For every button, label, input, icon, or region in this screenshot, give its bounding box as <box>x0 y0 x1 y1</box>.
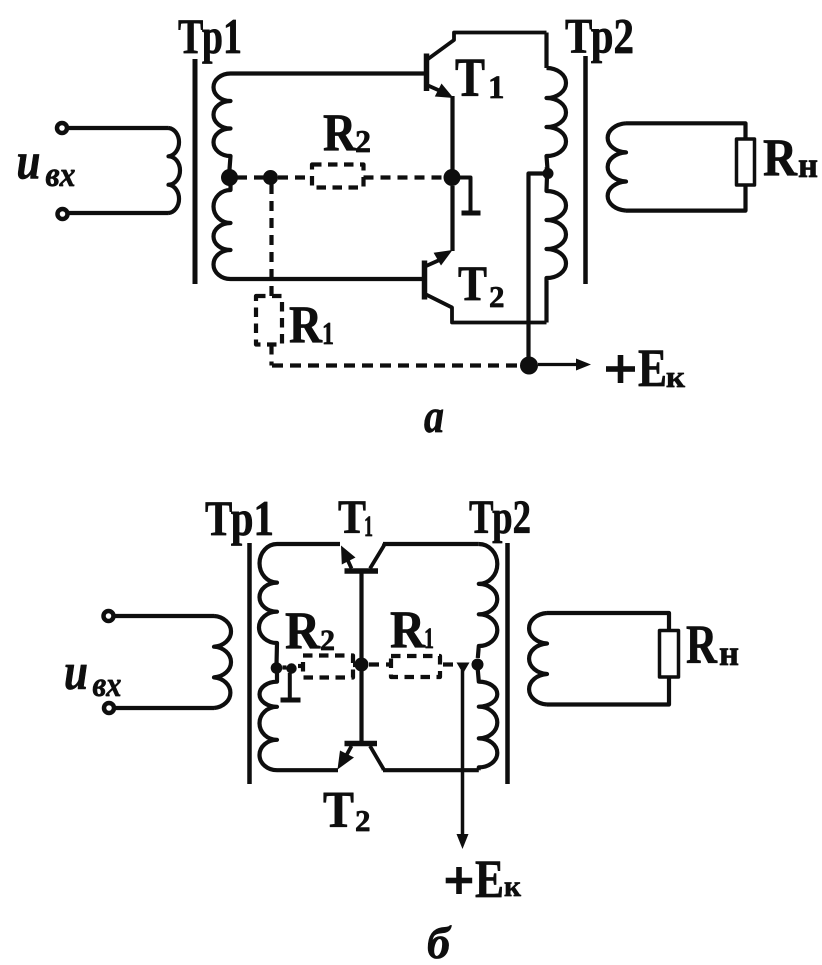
transformer Tp2 primary upper winding (a) <box>547 68 567 169</box>
wire dashed node A down to R1 (a) <box>269 184 273 296</box>
transistor T1 emitter arrow (a) <box>435 84 454 99</box>
label R2 (b) <box>285 602 335 660</box>
wire input bottom (a) <box>68 211 169 215</box>
transformer Tp1 core (b) <box>247 543 252 784</box>
label +Ek (b) <box>446 849 522 909</box>
label u_vx (a) <box>17 134 76 195</box>
label T2 (b) <box>323 782 371 839</box>
wire dashed R1 down (a) <box>269 345 273 366</box>
transistor T2 base bar (a) <box>422 261 428 300</box>
svg-text:2: 2 <box>320 624 335 657</box>
node center tap Tp2 (a) <box>547 167 548 171</box>
svg-text:R: R <box>686 614 718 675</box>
svg-text:Е: Е <box>638 338 667 398</box>
svg-text:1: 1 <box>424 622 434 655</box>
svg-text:вх: вх <box>93 665 122 704</box>
transformer Tp2 core (a) <box>583 56 588 284</box>
svg-text:1: 1 <box>364 510 373 543</box>
wire dashed R2 to emitter node (a) <box>364 175 445 179</box>
input terminal bottom (b) <box>104 703 114 713</box>
wire Tp2 secondary bottom to RH (a) <box>626 185 746 211</box>
wire dashed node B to R2 (b) <box>298 664 303 668</box>
transformer Tp1 secondary upper winding (b) <box>259 544 277 665</box>
transistor T2 emitter arrow (a) <box>434 250 453 266</box>
transformer Tp2 primary upper winding (b) <box>478 544 498 658</box>
svg-text:Е: Е <box>475 849 504 909</box>
svg-text:2: 2 <box>355 803 371 838</box>
svg-text:2: 2 <box>489 279 505 314</box>
transistor T2 base bar (b) <box>345 741 378 747</box>
transformer Tp2 core (b) <box>505 543 510 784</box>
transformer Tp2 secondary winding (b) <box>529 613 547 705</box>
wire bases vertical (b) <box>359 574 363 742</box>
node bases junction (b) <box>355 658 369 672</box>
wire dashed node A to R2 (a) <box>278 175 312 179</box>
resistor RH (b) <box>660 631 679 678</box>
input terminal top (b) <box>104 611 114 621</box>
resistor R2 (b) <box>303 656 353 678</box>
wire Tp2 secondary top to RH (b) <box>547 613 669 631</box>
resistor R2 (a) <box>312 165 364 188</box>
wire input bottom (b) <box>114 706 214 710</box>
svg-text:Т: Т <box>455 47 485 108</box>
svg-text:Т: Т <box>458 255 487 311</box>
label u_vx (b) <box>64 644 122 704</box>
node B (b) <box>286 663 296 673</box>
transformer Tp1 primary winding (b) <box>214 616 231 708</box>
transistor T1 emitter (a) <box>428 86 446 94</box>
wire top into Tp2 primary (a) <box>544 33 548 69</box>
transformer Tp2 primary lower winding (b) <box>478 670 498 770</box>
input terminal bottom (a) <box>58 209 68 219</box>
svg-text:Тр2: Тр2 <box>469 491 531 544</box>
transistor T2 emitter arrow (b) <box>338 751 355 770</box>
resistor RH (a) <box>737 139 755 185</box>
transformer Tp1 core (a) <box>193 59 198 284</box>
svg-text:R: R <box>763 129 798 187</box>
wire T1 collector to Tp2 (b) <box>383 542 479 546</box>
svg-text:R: R <box>323 104 357 162</box>
svg-text:к: к <box>504 870 522 903</box>
transistor T1 collector (a) <box>428 33 547 60</box>
node center tap Tp1 (b) <box>271 662 283 674</box>
transformer Tp2 primary lower winding (a) <box>547 176 567 323</box>
wire dashed tap to node B (b) <box>283 665 287 669</box>
wire Tp1 secondary bottom to T2 emitter (b) <box>277 768 338 772</box>
label RH (b) <box>686 614 739 675</box>
node center tap Tp2 (b) <box>472 659 484 671</box>
transistor T2 emitter (b) <box>346 746 352 756</box>
svg-text:Тр1: Тр1 <box>205 490 274 546</box>
wire Tp1 secondary bottom to T2 base (a) <box>231 277 423 281</box>
svg-text:Тр2: Тр2 <box>565 8 634 64</box>
resistor R1 (b) <box>391 656 440 677</box>
svg-text:Т: Т <box>323 782 354 839</box>
wire dashed tap to node A (a) <box>237 175 264 179</box>
resistor R1 (a) <box>256 296 282 345</box>
tick mark at emitter node (a) <box>459 178 471 212</box>
svg-text:1: 1 <box>488 70 505 106</box>
transistor T2 emitter (a) <box>426 258 444 266</box>
wire input top (b) <box>114 614 214 618</box>
wire Tp2 secondary top to RH (a) <box>626 123 746 139</box>
wire Tp1 secondary top to T1 emitter (b) <box>277 542 340 546</box>
wire Tp2 secondary bottom to RH (b) <box>547 677 669 705</box>
supply tap junction triangle (b) <box>457 663 470 674</box>
arrow +Ek (a) <box>538 363 578 366</box>
wire dashed bottom rail to +Ek node (a) <box>272 363 517 367</box>
svg-text:н: н <box>719 633 739 673</box>
label T1 (a) <box>455 47 505 108</box>
node center tap Tp1 (a) <box>221 169 238 186</box>
label R2 (a) <box>323 104 371 162</box>
transistor T1 base bar (a) <box>424 54 430 92</box>
svg-text:R: R <box>285 602 321 660</box>
transistor T1 emitter arrow (b) <box>341 546 356 565</box>
svg-text:к: к <box>666 359 685 394</box>
svg-text:Т: Т <box>338 491 366 544</box>
svg-text:R: R <box>390 601 426 659</box>
wire dashed R1 to supply tap (b) <box>443 662 453 666</box>
svg-text:б: б <box>427 917 452 965</box>
svg-text:1: 1 <box>322 315 334 351</box>
label R1 (a) <box>289 296 334 354</box>
wire input top (a) <box>68 126 169 130</box>
svg-text:2: 2 <box>355 123 371 159</box>
svg-text:н: н <box>798 145 818 185</box>
transistor T2 collector (b) <box>370 746 384 771</box>
wire dashed center node to R1 (b) <box>369 662 391 666</box>
tick mark at node B (b) <box>288 673 292 698</box>
wire node down to T2 emitter (a) <box>450 186 454 251</box>
wire T1 emitter down to node (a) <box>450 96 454 170</box>
svg-text:u: u <box>64 644 88 701</box>
label RH (a) <box>763 129 818 187</box>
label +Ek (a) <box>606 338 685 398</box>
label T2 (a) <box>458 255 505 314</box>
label R1 (b) <box>390 601 434 659</box>
transistor T1 emitter (b) <box>345 554 352 569</box>
wire supply arrow down (b) <box>461 670 465 836</box>
svg-text:u: u <box>17 134 41 191</box>
wire Tp2 tap to supply rail (a) <box>529 174 546 358</box>
arrowhead +Ek (b) <box>457 834 469 849</box>
node A (a) <box>263 170 278 185</box>
transformer Tp1 secondary upper winding (a) <box>214 74 231 173</box>
svg-text:R: R <box>289 296 323 354</box>
svg-text:вх: вх <box>46 155 76 194</box>
wire Tp1 secondary top to T1 base (a) <box>231 71 425 75</box>
svg-text:а: а <box>424 390 444 443</box>
node emitters junction (a) <box>444 169 461 186</box>
transformer Tp1 secondary lower winding (b) <box>260 667 278 770</box>
transformer Tp1 primary winding (a) <box>169 128 181 213</box>
transformer Tp1 secondary lower winding (a) <box>214 178 231 279</box>
input terminal top (a) <box>57 123 67 133</box>
wire dashed R2 to center node (b) <box>353 663 358 667</box>
node +Ek (a) <box>520 357 538 375</box>
transistor T1 collector (b) <box>370 544 384 569</box>
transistor T1 base bar (b) <box>345 568 379 574</box>
wire T2 collector to Tp2 (b) <box>383 768 479 772</box>
transformer Tp2 secondary winding (a) <box>608 123 626 210</box>
svg-text:Тр1: Тр1 <box>178 8 242 64</box>
transistor T2 collector (a) <box>426 295 547 323</box>
label T1 (b) <box>338 491 373 544</box>
